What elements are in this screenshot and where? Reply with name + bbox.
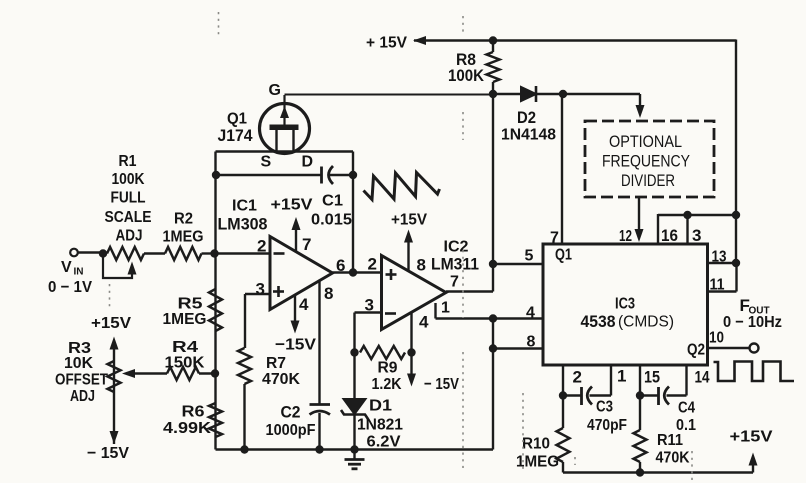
svg-text:0 − 1V: 0 − 1V [48,279,92,296]
node IC3 pin8 junction [489,344,497,352]
svg-text:3: 3 [692,226,701,245]
svg-text:7: 7 [450,274,459,291]
svg-text:(CMDS): (CMDS) [618,314,674,331]
terminal Vin [48,249,103,296]
svg-text:8: 8 [324,284,333,303]
resistor R4 150K [122,339,216,380]
svg-text:0 − 10Hz: 0 − 10Hz [723,314,782,331]
pin 5 stub [493,248,543,265]
ground symbol [345,450,365,469]
svg-text:1: 1 [441,300,450,317]
power +15V (bottom right) [730,429,773,473]
svg-text:D2: D2 [517,108,536,127]
wire IC1 pin3 stub [245,294,270,348]
svg-text:0.015: 0.015 [311,212,352,229]
node R11 bottom junction [636,468,644,476]
resistor R11 470K [634,396,690,473]
label Fout [723,296,782,331]
capacitor C4 0.1 [640,387,696,435]
pin 10 stub Fout [708,330,759,353]
svg-text:4.99K: 4.99K [163,420,211,437]
potentiometer R1 100K [103,153,165,278]
svg-text:14: 14 [695,368,710,387]
svg-text:− 15V: − 15V [424,376,459,393]
wire Q1 gate to junction [285,94,494,96]
svg-text:LM311: LM311 [431,255,479,274]
svg-text:OPTIONAL: OPTIONAL [609,133,682,151]
wire feedback left vertical [214,152,216,254]
wire IC1 pin8 to C2 [318,280,320,405]
wire D2 node to divider arrow [563,94,645,118]
svg-text:470pF: 470pF [587,417,627,434]
wire bottom rail [563,471,753,473]
svg-text:IC2: IC2 [444,239,469,256]
svg-text:C4: C4 [678,400,695,417]
wire IC3 pin7 from D2 node [550,94,562,247]
pin 8 stub [493,334,543,351]
svg-text:R11: R11 [657,432,683,449]
svg-text:−15V: −15V [275,337,316,354]
svg-text:FREQUENCY: FREQUENCY [602,153,690,171]
node IC3 pin5 junction [489,260,497,268]
svg-text:1: 1 [617,367,626,386]
power +15V (top left) [366,35,426,52]
node C1 left junction [212,171,220,179]
svg-text:10K: 10K [64,355,93,372]
svg-text:3: 3 [256,280,265,299]
svg-text:1N4148: 1N4148 [501,127,556,144]
pin 1 stub [611,365,626,396]
svg-text:ADJ: ADJ [116,228,143,245]
node C1 right junction [349,171,357,179]
waveform square wave [714,362,795,382]
svg-text:Q1: Q1 [227,111,247,128]
pin 3 label [692,226,701,245]
svg-text:R4: R4 [172,339,198,356]
svg-text:R10: R10 [522,436,550,453]
wire IC2 output [446,264,493,292]
svg-text:G: G [269,82,281,99]
IC U3 4538 box [543,244,708,365]
svg-text:+15V: +15V [91,315,131,332]
svg-text:R6: R6 [182,404,205,421]
svg-text:16: 16 [661,226,678,245]
node R4 junction [211,369,219,377]
svg-text:11: 11 [710,277,725,294]
pin 4 stub [493,305,543,322]
svg-text:2: 2 [368,255,377,274]
node R8 top junction [489,36,497,44]
node IC1 output junction [349,268,357,276]
wire ground bus [216,448,494,450]
svg-text:C3: C3 [596,399,613,416]
pin 14 stub [687,365,710,396]
node D1 ground junction [350,445,358,453]
wire +15V top rail [414,39,736,41]
svg-text:S: S [261,154,272,171]
svg-text:1.2K: 1.2K [372,376,402,393]
wire pins 16-3 tie line [658,214,736,244]
wire -15V below R9 [407,353,459,394]
svg-text:IC3: IC3 [615,296,635,313]
svg-text:R7: R7 [266,355,286,372]
node Vin/wiper junction [99,249,107,257]
op-amp IC2 LM311 [365,239,480,332]
svg-text:Q1: Q1 [555,247,572,264]
svg-text:7: 7 [302,235,311,254]
pin 2 stub [563,365,582,396]
resistor R2 1MEG [163,211,216,261]
resistor R7 470K [238,348,300,450]
svg-text:4: 4 [526,305,535,322]
diode D1 1N821 6.2V [341,353,403,451]
resistor R5 1MEG [163,289,223,331]
svg-text:ADJ: ADJ [70,388,95,405]
svg-text:R9: R9 [378,360,398,377]
svg-text:8: 8 [527,334,536,351]
svg-text:FULL: FULL [111,190,146,207]
node rail/tie junction [732,211,740,219]
svg-text:OFFSET: OFFSET [55,372,108,389]
svg-text:4: 4 [299,295,309,314]
svg-text:1N821: 1N821 [357,417,403,434]
scan artifact dotted lines [110,12,693,481]
svg-text:V: V [61,259,72,276]
svg-text:15: 15 [644,368,660,387]
pin 13 stub [708,249,737,266]
node D2 cathode junction [559,90,567,98]
node R7 ground junction [240,445,248,453]
pin 15 stub [640,365,660,396]
svg-text:100K: 100K [448,66,485,85]
resistor R10 1MEG [516,396,570,473]
wire right rail down [735,40,737,265]
svg-text:5: 5 [525,248,534,265]
svg-text:+ 15V: + 15V [366,35,407,52]
svg-text:D1: D1 [369,398,392,415]
wire IC2 pin3 stub [355,313,382,353]
svg-text:470K: 470K [262,371,300,388]
svg-text:C2: C2 [281,403,301,422]
node IC3 pin4 junction [489,314,497,322]
svg-text:+15V: +15V [730,429,773,446]
transistor Q1 J174 [218,82,314,171]
wire IC2 pin4/-15V [410,313,412,353]
resistor R6 4.99K [163,403,222,437]
wire C1 left segment [216,174,322,176]
svg-text:+15V: +15V [271,197,313,214]
capacitor C1 0.015 [311,166,353,229]
svg-text:D: D [302,154,314,171]
potentiometer R3 10K [55,315,131,462]
svg-text:C1: C1 [322,193,343,210]
diode D2 1N4148 [493,86,563,144]
wire IC1 pin4 -15V [275,295,316,354]
svg-text:IN: IN [74,267,84,278]
resistor R9 1.2K [360,346,405,393]
svg-text:150K: 150K [165,355,205,372]
wire IC2 pin1 [436,303,494,319]
svg-text:Q2: Q2 [687,342,705,359]
svg-text:13: 13 [712,249,727,266]
wire left bus [214,254,216,450]
pin 11 stub [708,263,737,294]
node R2/R5/pin2 junction [210,249,218,257]
wire IC2 pin8 +15V [391,212,427,272]
waveform sawtooth [364,173,440,200]
wire comparator node down [492,94,494,264]
svg-text:LM308: LM308 [218,215,268,234]
svg-text:− 15V: − 15V [87,445,129,462]
svg-text:SCALE: SCALE [105,209,152,226]
node C3 left junction [559,391,567,399]
node pin3 junction [683,211,691,219]
wire feedback right vertical [352,152,354,273]
node R8/D2/gate junction [489,90,497,98]
op-amp IC1 LM308 [218,198,346,315]
svg-text:4538: 4538 [581,312,616,331]
svg-text:R5: R5 [178,296,203,313]
svg-text:DIVIDER: DIVIDER [621,172,675,190]
wire IC1 pin7 +15V [271,197,313,252]
svg-text:IC1: IC1 [232,198,257,215]
svg-text:12: 12 [619,228,632,245]
svg-text:8: 8 [417,256,426,275]
node R9 right junction [407,348,415,356]
resistor R8 [448,41,500,95]
node pin13 junction [732,259,740,267]
svg-text:4: 4 [419,313,429,332]
node R9 left junction [350,348,358,356]
pin 16 label [661,226,678,245]
svg-text:1000pF: 1000pF [266,422,316,439]
svg-text:R2: R2 [174,211,193,228]
wire divider output to IC3 pin12 [619,197,644,245]
wire IC1 pin2 stub [216,252,271,254]
svg-text:6.2V: 6.2V [367,434,401,451]
svg-text:470K: 470K [656,450,690,467]
svg-text:2: 2 [573,368,582,387]
node C2 ground junction [315,445,323,453]
box optional frequency divider [585,121,714,197]
node C4 left junction [636,391,644,399]
capacitor C2 1000pF [266,403,331,450]
svg-text:2: 2 [257,237,266,256]
svg-text:1MEG: 1MEG [163,311,207,328]
svg-text:1MEG: 1MEG [163,229,204,246]
svg-text:+15V: +15V [391,212,427,229]
wire pin8 node to ground bus [492,319,494,450]
wire IC1 output [333,271,382,273]
svg-text:R1: R1 [119,153,137,170]
svg-text:100K: 100K [112,171,145,188]
svg-text:10: 10 [709,330,724,347]
wire S-D top [216,150,354,152]
svg-text:J174: J174 [218,126,253,145]
capacitor C3 470pF [563,387,627,435]
